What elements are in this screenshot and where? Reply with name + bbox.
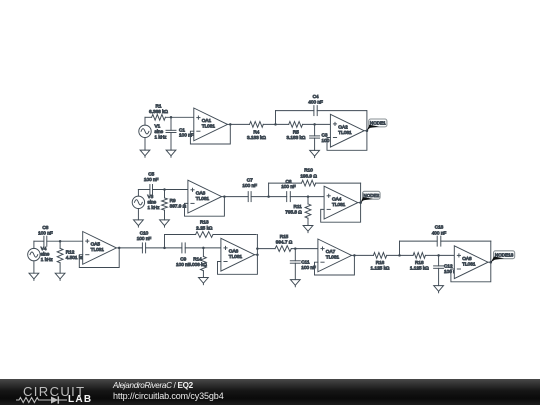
CircuitLab logo resistor-diode glyph (16, 395, 70, 405)
resistor R13 (196, 232, 213, 238)
op-amp OA3 TL081 (188, 180, 222, 213)
wire C9 to OA6 + (185, 247, 221, 249)
CircuitLab logo word LAB (68, 395, 92, 405)
wire OA1 output (230, 123, 249, 125)
svg-text:TL081: TL081 (338, 130, 352, 135)
svg-text:TL081: TL081 (462, 262, 476, 267)
svg-text:C13: C13 (435, 225, 444, 230)
wire C11 top lead (294, 249, 296, 261)
op-amp OA2 TL081 (330, 114, 364, 147)
svg-text:1.125 kΩ: 1.125 kΩ (410, 266, 429, 271)
wire OA3 output to C7 (224, 196, 248, 198)
wire OA2 feedback loop (327, 111, 367, 151)
resistor R16 (373, 253, 386, 259)
wire riser to C4 feedback (275, 111, 277, 125)
ground V3 (134, 220, 144, 226)
svg-text:100 nF: 100 nF (281, 184, 296, 189)
svg-text:TL081: TL081 (196, 196, 210, 201)
svg-text:C5: C5 (148, 172, 154, 177)
voltage source V4 (28, 248, 40, 260)
node junction C10/C9 riser (163, 247, 166, 250)
svg-text:6.366 kΩ: 6.366 kΩ (149, 109, 168, 114)
wire R13 feedback right segment (213, 234, 256, 236)
wire V1 top lead (144, 117, 146, 125)
node OA6 apex joint (256, 253, 259, 256)
voltage source V3 (132, 196, 144, 208)
wire R18 to OA8 + (425, 254, 454, 256)
svg-text:C8: C8 (42, 225, 48, 230)
ground R14 (199, 278, 209, 284)
svg-text:1 kHz: 1 kHz (41, 257, 54, 262)
svg-text:100 nF: 100 nF (137, 236, 152, 241)
wire C8 to OA5 + (47, 240, 83, 242)
svg-text:198.9 Ω: 198.9 Ω (300, 173, 317, 178)
wire R13 feedback left segment (165, 234, 196, 236)
resistor R15 (275, 246, 291, 252)
wire OA8 feedback loop (451, 241, 491, 282)
wire C1 bottom lead (170, 133, 172, 151)
wire C5 to OA3 + (153, 189, 188, 191)
svg-text:TL081: TL081 (332, 202, 346, 207)
wire R14 top lead (202, 248, 204, 257)
svg-text:V1: V1 (155, 123, 161, 128)
svg-text:R9: R9 (170, 198, 176, 203)
svg-text:R15: R15 (280, 234, 289, 239)
flag NODE13 (494, 251, 515, 259)
wire R12 bottom lead (59, 263, 61, 273)
node junction R16/R18/C13 (398, 254, 401, 257)
op-amp OA7 TL081 (318, 239, 352, 272)
capacitor C6 (286, 192, 288, 202)
svg-text:C6: C6 (286, 179, 292, 184)
ground C12 (434, 286, 444, 292)
svg-text:OA2: OA2 (338, 125, 348, 130)
svg-text:OA8: OA8 (462, 256, 472, 261)
wire C7 to C6 (251, 196, 287, 198)
op-amp OA1 TL081 (194, 108, 228, 141)
wire C4 feedback right segment (317, 110, 366, 112)
wire V4 bottom lead (33, 261, 35, 273)
wire V1 bottom lead (144, 138, 146, 151)
svg-text:R1: R1 (156, 104, 162, 109)
svg-text:9.006 kΩ: 9.006 kΩ (188, 262, 207, 267)
wire OA6 output to R15 (257, 248, 275, 250)
svg-text:TL081: TL081 (202, 124, 216, 129)
svg-text:C12: C12 (444, 263, 453, 268)
capacitor C13 (436, 236, 438, 246)
svg-text:3.183 kΩ: 3.183 kΩ (286, 135, 305, 140)
wire C3 top lead (314, 124, 316, 135)
svg-text:795.8 Ω: 795.8 Ω (285, 210, 302, 215)
capacitor C10 (141, 243, 143, 253)
svg-text:R12: R12 (66, 250, 75, 255)
footer url text (113, 392, 224, 401)
node junction C5/R9 (163, 188, 166, 191)
wire riser to R10 feedback (268, 183, 270, 197)
node junction R1/C1 (170, 116, 173, 119)
ground C1 (166, 150, 176, 156)
wire C1 top lead (170, 117, 172, 130)
svg-text:NODE2: NODE2 (363, 193, 379, 198)
wire R16 to R18 (387, 254, 413, 256)
node OA8 output (490, 261, 493, 264)
op-amp OA5 TL081 (83, 232, 117, 265)
svg-text:sine: sine (41, 251, 50, 256)
wire OA1 feedback loop (190, 124, 230, 144)
wire riser to C13 feedback (399, 241, 401, 255)
svg-text:OA1: OA1 (202, 118, 212, 123)
wire C6 to OA4 + (290, 196, 324, 198)
wire V3 top lead (137, 190, 139, 197)
node junction C9/R14 (202, 247, 205, 250)
resistor R14 (201, 257, 207, 271)
wire V4 to C8 (34, 240, 44, 242)
voltage source V1 (139, 125, 151, 137)
wire C13 feedback left segment (400, 240, 438, 242)
resistor R4 (250, 122, 264, 128)
svg-text:TL081: TL081 (229, 254, 243, 259)
resistor R5 (289, 122, 303, 128)
svg-text:100 nF: 100 nF (144, 177, 159, 182)
wire OA5 output to C10 (119, 247, 142, 249)
wire R9 bottom lead (164, 210, 166, 220)
capacitor C4 (313, 106, 315, 116)
wire OA4 feedback loop (321, 183, 361, 222)
node junction R15/C11 (294, 247, 297, 250)
wire R10 feedback right segment (316, 182, 361, 184)
node junction R4/R5/C4 (274, 123, 277, 126)
wire V3 to C5 (138, 189, 150, 191)
svg-text:C7: C7 (247, 178, 253, 183)
wire R11 top lead (307, 197, 309, 204)
svg-text:994.7 Ω: 994.7 Ω (276, 240, 293, 245)
svg-text:C11: C11 (301, 259, 310, 264)
node junction R18/C12 (437, 254, 440, 257)
resistor R1 (152, 114, 166, 120)
svg-text:NODE13: NODE13 (495, 252, 514, 257)
svg-text:100 nF: 100 nF (301, 265, 316, 270)
wire R14 bottom lead (202, 271, 204, 278)
node junction C6/R11 (307, 195, 310, 198)
wire riser to R13 feedback (164, 235, 166, 248)
wire V4 top lead (33, 241, 35, 248)
wire R5 to OA2 + (303, 123, 331, 125)
svg-text:2.25 kΩ: 2.25 kΩ (196, 225, 213, 230)
svg-text:OA5: OA5 (91, 242, 101, 247)
svg-text:R11: R11 (294, 204, 303, 209)
svg-text:400 nF: 400 nF (432, 230, 447, 235)
svg-text:OA4: OA4 (332, 196, 342, 201)
node OA2 output (366, 129, 369, 132)
wire OA6 feedback loop (218, 235, 258, 275)
wire C4 feedback left segment (276, 110, 314, 112)
svg-text:3.183 kΩ: 3.183 kΩ (247, 135, 266, 140)
svg-text:C4: C4 (313, 94, 319, 99)
capacitor C11 (290, 260, 300, 262)
flag NODE2 (363, 191, 381, 199)
svg-text:C9: C9 (180, 257, 186, 262)
capacitor C12 (434, 265, 444, 267)
svg-text:100 nF: 100 nF (179, 133, 194, 138)
wire R12 top lead (59, 241, 61, 248)
wire OA3 feedback loop (185, 197, 225, 217)
svg-text:OA3: OA3 (196, 190, 206, 195)
flag NODE1 (369, 119, 387, 127)
wire C10 to C9 (146, 247, 182, 249)
svg-text:TL081: TL081 (326, 255, 340, 260)
wire OA5 feedback loop (79, 248, 119, 268)
wire C3 bottom lead (314, 138, 316, 150)
capacitor C1 (166, 129, 176, 131)
ground R9 (160, 220, 170, 226)
node junction C7/C6 riser (267, 195, 270, 198)
svg-text:R13: R13 (200, 220, 209, 225)
op-amp OA6 TL081 (221, 238, 255, 271)
svg-text:R10: R10 (304, 168, 313, 173)
resistor R9 (162, 198, 168, 210)
svg-text:R14: R14 (193, 257, 202, 262)
capacitor C7 (247, 192, 249, 202)
CircuitLab logo word CIRCUIT (23, 385, 86, 398)
resistor R10 (302, 180, 316, 186)
svg-text:R16: R16 (376, 260, 385, 265)
wire R9 top lead (164, 190, 166, 198)
capacitor C8 (43, 236, 45, 246)
svg-text:OA6: OA6 (229, 249, 239, 254)
wire V3 bottom lead (137, 209, 139, 220)
svg-text:TL081: TL081 (91, 247, 105, 252)
wire C12 top lead (438, 255, 440, 266)
svg-text:C10: C10 (140, 231, 149, 236)
wire R15 to OA7 + (291, 248, 318, 250)
op-amp OA8 TL081 (454, 246, 488, 279)
wire C11 bottom lead (294, 263, 296, 279)
svg-text:1 kHz: 1 kHz (148, 205, 161, 210)
resistor R12 (57, 248, 63, 262)
svg-text:sine: sine (148, 199, 157, 204)
wire C13 feedback right segment (441, 240, 491, 242)
ground R12 (55, 273, 65, 279)
op-amp OA4 TL081 (324, 186, 358, 219)
footer author/title text (113, 382, 193, 390)
ground C3 (310, 150, 320, 156)
svg-text:sine: sine (155, 129, 164, 134)
resistor R18 (413, 253, 425, 259)
svg-text:R4: R4 (253, 130, 259, 135)
wire OA6 apex stub (255, 254, 258, 256)
ground V4 (29, 273, 39, 279)
wire row1 input net V1-R1-C1 to OA1 + (145, 116, 152, 118)
ground C11 (290, 280, 300, 286)
svg-text:100 nF: 100 nF (242, 183, 257, 188)
svg-text:1 kHz: 1 kHz (155, 134, 168, 139)
svg-text:R18: R18 (415, 260, 424, 265)
wire R10 feedback left segment (269, 182, 302, 184)
capacitor C9 (181, 243, 183, 253)
ground R11 (303, 226, 313, 232)
wire OA7 output to R16 (354, 254, 373, 256)
svg-text:R5: R5 (293, 130, 299, 135)
svg-text:OA7: OA7 (326, 249, 336, 254)
capacitor C5 (149, 185, 151, 195)
svg-text:1.125 kΩ: 1.125 kΩ (371, 266, 390, 271)
capacitor C3 (310, 135, 320, 137)
resistor R11 (305, 204, 311, 218)
wire R4 to R5 (263, 123, 288, 125)
svg-text:100 nF: 100 nF (38, 230, 53, 235)
svg-text:400 nF: 400 nF (308, 99, 323, 104)
wire OA7 feedback loop (315, 255, 355, 275)
node junction C8/R12 (59, 240, 62, 243)
svg-text:NODE1: NODE1 (370, 121, 386, 126)
node junction R5/C3 (313, 123, 316, 126)
node OA6 output exit (256, 247, 259, 250)
wire R11 bottom lead (307, 218, 309, 225)
node OA4 output (359, 201, 362, 204)
wire C12 bottom lead (438, 268, 440, 285)
ground V1 (140, 150, 150, 156)
